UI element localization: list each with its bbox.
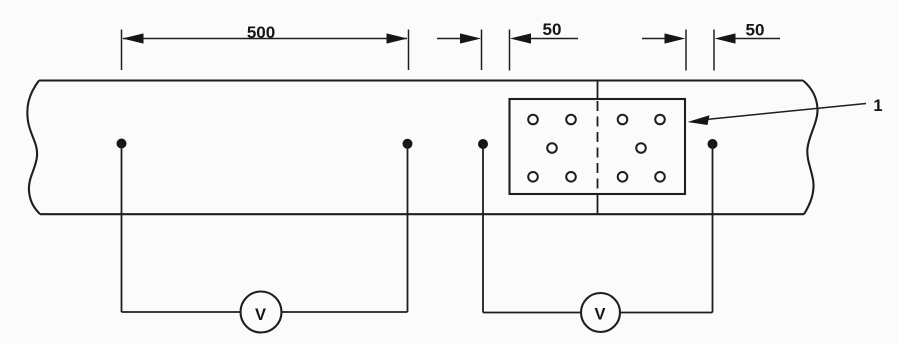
svg-text:V: V [255, 306, 266, 324]
svg-text:50: 50 [543, 20, 562, 39]
svg-text:500: 500 [247, 23, 275, 42]
svg-text:1: 1 [873, 97, 882, 115]
svg-text:V: V [594, 306, 605, 324]
svg-text:50: 50 [746, 21, 765, 40]
